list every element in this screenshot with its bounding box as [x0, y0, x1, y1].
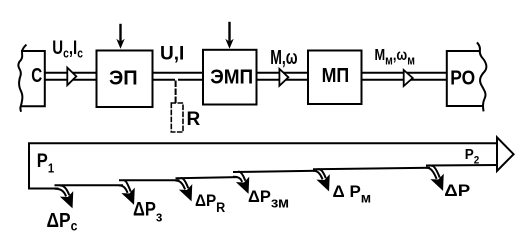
- bottom edge segment 7: [427, 164, 497, 167]
- loss branch ΔP (curved double line + arrowhead): [427, 166, 439, 178]
- wire МП→РО (double line): [363, 73, 447, 80]
- loss branch ΔPм (curved double line + arrowhead): [314, 169, 325, 178]
- down arrow into ЭП: [119, 25, 121, 43]
- dashed lead from wire to resistor R: [175, 82, 177, 104]
- flow arrow on wire ЭМП→МП: [279, 69, 288, 86]
- svg-text:ΔPR: ΔPR: [195, 191, 226, 215]
- svg-text:ΔPс: ΔPс: [47, 209, 78, 234]
- flow arrow on wire МП→РО: [404, 70, 413, 86]
- svg-text:ΔPз: ΔPз: [133, 198, 162, 224]
- svg-text:R: R: [187, 109, 201, 130]
- svg-text:ΔP: ΔP: [444, 181, 470, 200]
- svg-text:Uс,Iс: Uс,Iс: [52, 37, 83, 60]
- resistor R (dashed rectangle): [171, 103, 183, 132]
- block РО (working mechanism, wavy right edge): [447, 43, 487, 110]
- svg-text:Δ Pм: Δ Pм: [333, 182, 372, 206]
- bottom edge segment 4: [177, 177, 237, 178]
- svg-text:P1: P1: [37, 150, 55, 176]
- arrowhead of energy arrow: [497, 137, 514, 171]
- svg-text:С: С: [31, 64, 42, 87]
- loss branch ΔPзм (curved double line + arrowhead): [234, 172, 245, 181]
- block МП: [308, 51, 362, 105]
- bottom edge segment 2: [56, 184, 123, 186]
- bottom edge segment 6: [314, 168, 429, 169]
- svg-text:ЭМП: ЭМП: [210, 66, 253, 89]
- loss branch ΔP_R (curved double line + arrowhead): [177, 178, 188, 188]
- svg-text:МП: МП: [322, 65, 350, 87]
- block С (supply network, wavy left edge): [18, 45, 44, 111]
- wire С→ЭП (double line): [46, 73, 96, 80]
- svg-text:U,I: U,I: [160, 44, 184, 65]
- svg-text:M,ω: M,ω: [270, 45, 297, 68]
- flow arrow on wire С→ЭП: [67, 68, 76, 86]
- loss branch ΔPз (curved double line + arrowhead): [120, 181, 130, 192]
- block ЭП: [97, 51, 153, 108]
- svg-text:ЭП: ЭП: [109, 68, 138, 90]
- down arrow into ЭМП: [228, 23, 230, 43]
- block ЭМП: [203, 50, 257, 105]
- wire ЭМП→МП (double line): [258, 73, 308, 80]
- bottom edge segment 1: [29, 188, 58, 190]
- wire ЭП→ЭМП (double line): [154, 73, 203, 80]
- bottom edge segment 3: [120, 179, 179, 181]
- svg-text:P2: P2: [465, 146, 480, 166]
- svg-text:Мм,ωм: Мм,ωм: [375, 47, 415, 68]
- svg-text:РО: РО: [450, 66, 475, 88]
- loss branch ΔPс (curved double line + arrowhead): [56, 186, 69, 196]
- energy flow arrow P1→P2 (outline: left edge, top edge, right arrowhead): [29, 143, 497, 188]
- bottom edge segment 5: [234, 171, 316, 172]
- svg-text:ΔPзм: ΔPзм: [248, 188, 289, 212]
